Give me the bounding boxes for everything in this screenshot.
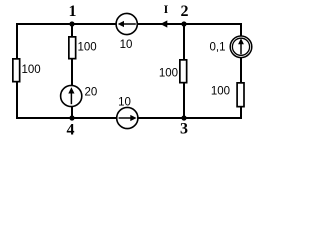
svg-text:100: 100: [78, 42, 97, 54]
current arrow I on top wire (pointing left): [160, 2, 168, 28]
svg-text:2: 2: [181, 3, 189, 20]
wire: bottom bus: [16, 117, 241, 119]
wire: left bus x=17: [16, 23, 18, 119]
current source 0,1 (right, double circle, arrow up): [210, 36, 252, 58]
svg-text:4: 4: [67, 122, 75, 139]
wire: branch node1 to node4 x=72: [71, 24, 73, 118]
node 4: [67, 115, 75, 138]
svg-text:I: I: [164, 2, 169, 16]
current source 20 (left branch, arrow up): [61, 85, 98, 106]
node 3: [180, 115, 188, 137]
svg-text:100: 100: [211, 86, 230, 98]
node 2: [181, 3, 189, 27]
svg-text:0,1: 0,1: [210, 42, 226, 54]
resistor R left 100: [13, 59, 41, 82]
current source 10 (top, arrow left): [116, 13, 137, 51]
svg-text:100: 100: [159, 68, 178, 80]
node 1: [69, 3, 77, 27]
svg-text:10: 10: [118, 97, 131, 109]
svg-text:3: 3: [180, 121, 188, 138]
resistor R node2-node3 100: [159, 60, 187, 83]
resistor R right 100: [211, 83, 244, 107]
wire: branch node2 to node3 x=184: [183, 24, 185, 118]
current source 10 (bottom, arrow right): [117, 97, 138, 129]
svg-text:10: 10: [120, 39, 133, 51]
svg-text:1: 1: [69, 3, 77, 20]
svg-text:100: 100: [22, 64, 41, 76]
wire: top bus from top-left corner to top-right corner: [16, 23, 242, 25]
wire: right bus x=241: [240, 23, 242, 119]
svg-text:20: 20: [85, 87, 98, 99]
resistor R node1-branch 100: [69, 37, 97, 59]
